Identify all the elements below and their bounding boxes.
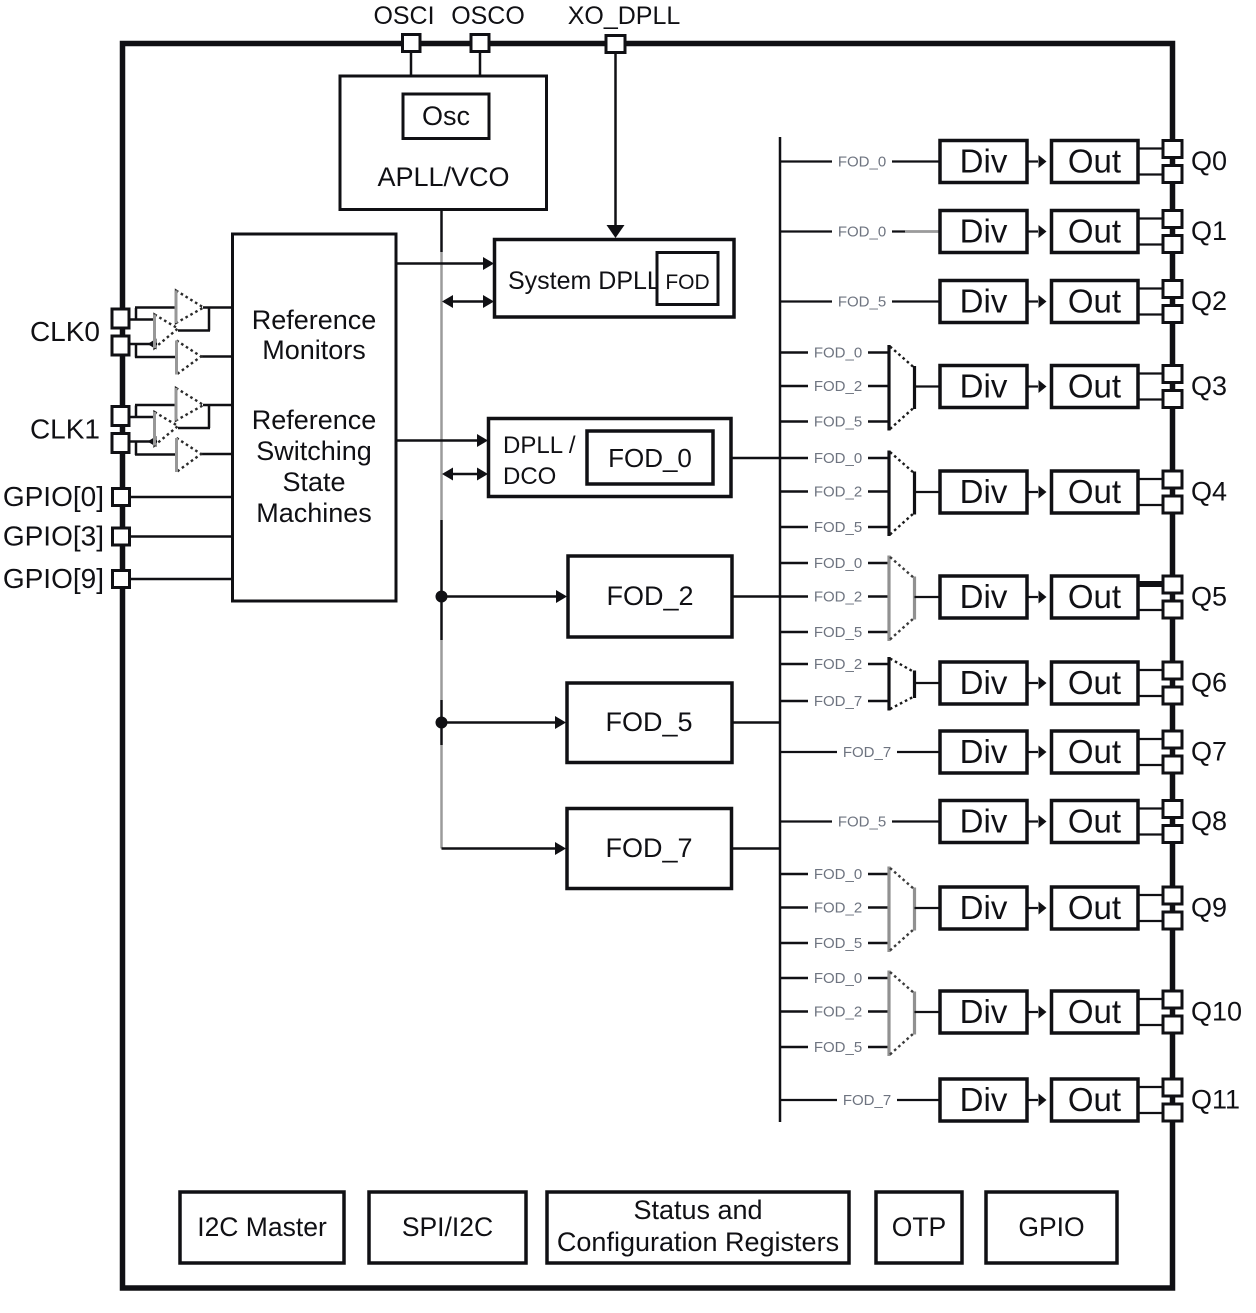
input buffers CLK0 [129, 291, 233, 375]
wire Out to pins Q1 [1138, 217, 1164, 219]
svg-text:Div: Div [960, 143, 1008, 180]
block FOD_7 [567, 809, 732, 889]
divider Div Q11 [940, 1079, 1027, 1121]
svg-text:DCO: DCO [503, 463, 556, 490]
pin squares Q3 [1163, 366, 1182, 383]
wire Out to pins Q9 [1138, 894, 1164, 896]
output driver Out Q0 [1052, 141, 1139, 183]
svg-text:GPIO[9]: GPIO[9] [3, 563, 104, 594]
svg-text:Configuration Registers: Configuration Registers [557, 1227, 839, 1257]
wire to FOD_7 [442, 847, 558, 850]
arrow Div to Out [1027, 385, 1038, 387]
svg-text:Out: Out [1068, 283, 1121, 320]
pin GPIO[3] square [113, 528, 130, 545]
divider Div Q7 [940, 731, 1027, 773]
svg-text:CLK1: CLK1 [30, 414, 100, 445]
wire DPLL/DCO bidirectional [444, 473, 478, 476]
mux Q6 [887, 657, 890, 711]
svg-text:APLL/VCO: APLL/VCO [377, 162, 509, 192]
svg-text:Div: Div [960, 283, 1008, 320]
svg-text:FOD_0: FOD_0 [838, 154, 886, 171]
svg-text:Q5: Q5 [1191, 582, 1227, 612]
pin squares Q4 [1163, 471, 1182, 488]
svg-text:Q8: Q8 [1191, 806, 1227, 836]
svg-text:Div: Div [960, 473, 1008, 510]
svg-text:FOD_2: FOD_2 [606, 581, 693, 611]
svg-text:FOD_5: FOD_5 [838, 294, 886, 311]
svg-text:Q0: Q0 [1191, 146, 1227, 176]
svg-text:XO_DPLL: XO_DPLL [568, 2, 681, 30]
pin GPIO[9] square [113, 571, 130, 588]
svg-text:Osc: Osc [422, 101, 470, 131]
svg-text:FOD_0: FOD_0 [814, 866, 862, 883]
wire APLL output down (gray seg) [440, 640, 443, 700]
svg-text:Div: Div [960, 803, 1008, 840]
svg-text:FOD_5: FOD_5 [814, 519, 862, 536]
wire Out to pins Q10 [1138, 998, 1164, 1000]
svg-text:FOD_2: FOD_2 [814, 656, 862, 673]
block Osc [403, 94, 489, 139]
svg-text:I2C Master: I2C Master [197, 1212, 327, 1242]
pin squares Q6 [1163, 662, 1182, 679]
svg-text:Div: Div [960, 664, 1008, 701]
svg-text:Monitors: Monitors [262, 335, 366, 365]
output channel Q9 [780, 865, 1227, 952]
svg-text:State: State [282, 467, 345, 497]
svg-text:Div: Div [960, 368, 1008, 405]
mux Q3 [887, 345, 890, 431]
wire APLL output down (black seg FOD_5) [440, 700, 443, 745]
svg-text:GPIO[0]: GPIO[0] [3, 481, 104, 512]
divider Div Q0 [940, 141, 1027, 183]
wire Out to pins Q5 [1138, 581, 1164, 587]
svg-text:Out: Out [1068, 733, 1121, 770]
svg-text:FOD_5: FOD_5 [814, 414, 862, 431]
divider Div Q10 [940, 991, 1027, 1033]
pin squares Q5 [1163, 576, 1182, 593]
svg-text:Q2: Q2 [1191, 286, 1227, 316]
svg-text:FOD_0: FOD_0 [814, 345, 862, 362]
svg-text:FOD_0: FOD_0 [838, 224, 886, 241]
divider Div Q8 [940, 801, 1027, 843]
output channel Q7 [780, 731, 1227, 773]
wire GPIO[3] [129, 535, 233, 538]
svg-text:FOD_5: FOD_5 [814, 624, 862, 641]
pin squares Q9 [1163, 887, 1182, 904]
svg-text:GPIO: GPIO [1018, 1212, 1084, 1242]
svg-text:Out: Out [1068, 889, 1121, 926]
output driver Out Q3 [1052, 366, 1139, 408]
output channel Q11 [780, 1079, 1240, 1121]
svg-text:FOD_0: FOD_0 [608, 443, 692, 473]
svg-text:GPIO[3]: GPIO[3] [3, 521, 104, 552]
output channel Q5 [732, 554, 1227, 641]
svg-text:Div: Div [960, 578, 1008, 615]
wire Out to pins Q2 [1138, 287, 1164, 289]
svg-text:Out: Out [1068, 368, 1121, 405]
pin squares Q2 [1163, 281, 1182, 298]
svg-text:FOD: FOD [665, 271, 709, 294]
svg-text:OSCO: OSCO [451, 2, 525, 30]
svg-text:Div: Div [960, 213, 1008, 250]
node junction FOD_2 feed [436, 591, 448, 603]
svg-text:System DPLL: System DPLL [508, 267, 661, 295]
arrow Div to Out [1027, 491, 1038, 493]
wire APLL output down (gray bottom) [440, 745, 443, 849]
svg-text:FOD_7: FOD_7 [843, 1092, 891, 1109]
svg-text:Q3: Q3 [1191, 371, 1227, 401]
svg-text:FOD_5: FOD_5 [814, 935, 862, 952]
output channel Q6 [780, 655, 1227, 711]
svg-text:Out: Out [1068, 664, 1121, 701]
output driver Out Q1 [1052, 211, 1139, 253]
svg-text:FOD_5: FOD_5 [838, 814, 886, 831]
arrow Div to Out [1027, 820, 1038, 822]
wire FOD_7 output to bus [732, 847, 781, 850]
svg-text:Div: Div [960, 733, 1008, 770]
wire to FOD_2 [442, 595, 559, 598]
svg-text:Out: Out [1068, 213, 1121, 250]
output channel Q10 [780, 969, 1242, 1056]
divider Div Q9 [940, 887, 1027, 929]
mux Q9 [887, 867, 890, 953]
svg-text:Out: Out [1068, 578, 1121, 615]
output driver Out Q7 [1052, 731, 1139, 773]
mux Q4 [887, 451, 890, 537]
svg-text:Switching: Switching [256, 436, 372, 466]
wire Reference to System DPLL [396, 262, 484, 265]
block FOD_5 [567, 683, 732, 763]
svg-text:FOD_7: FOD_7 [843, 744, 891, 761]
pin squares Q7 [1163, 731, 1182, 748]
wire Out to pins Q4 [1138, 478, 1164, 480]
block Status and Configuration Registers [547, 1192, 849, 1263]
divider Div Q6 [940, 662, 1027, 704]
node junction FOD_5 feed [436, 717, 448, 729]
arrow Div to Out [1027, 907, 1038, 909]
svg-text:FOD_0: FOD_0 [814, 450, 862, 467]
block Reference Monitors / Switching State Machines [233, 234, 397, 601]
arrow Div to Out [1027, 682, 1038, 684]
arrow Div to Out [1027, 230, 1038, 232]
output driver Out Q10 [1052, 991, 1139, 1033]
svg-text:FOD_2: FOD_2 [814, 589, 862, 606]
svg-text:Out: Out [1068, 473, 1121, 510]
output channel Q2 [780, 281, 1227, 323]
svg-text:OSCI: OSCI [373, 2, 434, 30]
svg-text:Out: Out [1068, 993, 1121, 1030]
output driver Out Q11 [1052, 1079, 1139, 1121]
output channel Q1 [780, 211, 1227, 253]
svg-text:SPI/I2C: SPI/I2C [402, 1212, 493, 1242]
block System DPLL [495, 240, 735, 318]
block FOD_0 (inside DPLL/DCO) [587, 431, 713, 484]
svg-text:FOD_5: FOD_5 [605, 707, 692, 737]
output channel Q3 [780, 344, 1227, 431]
wire GPIO[9] [129, 578, 233, 581]
wire APLL output down (black top) [440, 209, 443, 252]
pin XO_DPLL square [606, 36, 625, 53]
svg-text:CLK0: CLK0 [30, 316, 100, 347]
svg-text:FOD_2: FOD_2 [814, 900, 862, 917]
arrow Div to Out [1027, 1099, 1038, 1101]
pin squares Q11 [1163, 1079, 1182, 1096]
mux Q5 [887, 556, 890, 642]
arrow Div to Out [1027, 160, 1038, 162]
svg-text:Div: Div [960, 889, 1008, 926]
pin squares Q1 [1163, 211, 1182, 228]
pin CLK0 squares [112, 309, 129, 328]
wire Out to pins Q11 [1138, 1086, 1164, 1088]
svg-text:Div: Div [960, 1081, 1008, 1118]
svg-text:FOD_7: FOD_7 [814, 693, 862, 710]
block FOD (inside System DPLL) [657, 253, 718, 305]
wire APLL output down (gray mid) [440, 252, 443, 520]
block DPLL/DCO [489, 419, 732, 497]
svg-text:Out: Out [1068, 143, 1121, 180]
divider Div Q2 [940, 281, 1027, 323]
svg-text:DPLL /: DPLL / [503, 432, 576, 459]
svg-text:Q1: Q1 [1191, 216, 1227, 246]
pin GPIO[0] square [113, 489, 130, 506]
svg-text:Div: Div [960, 993, 1008, 1030]
wire GPIO[0] [129, 496, 233, 499]
block GPIO [986, 1192, 1117, 1263]
pin CLK1 squares [112, 407, 129, 426]
pin squares Q0 [1163, 141, 1182, 158]
svg-text:FOD_0: FOD_0 [814, 970, 862, 987]
divider Div Q1 [940, 211, 1027, 253]
wire Reference to DPLL/DCO [396, 439, 478, 442]
wire Out to pins Q8 [1138, 807, 1164, 809]
output channel Q8 [780, 801, 1227, 843]
wire Out to pins Q7 [1138, 738, 1164, 740]
svg-text:Out: Out [1068, 1081, 1121, 1118]
svg-text:Q9: Q9 [1191, 893, 1227, 923]
pin squares Q8 [1163, 801, 1182, 818]
wire to FOD_5 [442, 721, 558, 724]
svg-text:FOD_2: FOD_2 [814, 1004, 862, 1021]
chip outline border [123, 44, 1173, 1289]
wire XO_DPLL to System DPLL [614, 52, 617, 227]
divider Div Q3 [940, 366, 1027, 408]
block APLL/VCO [340, 76, 547, 210]
svg-text:FOD_2: FOD_2 [814, 484, 862, 501]
arrow Div to Out [1027, 1011, 1038, 1013]
input buffers CLK1 [129, 388, 233, 472]
arrow Div to Out [1027, 751, 1038, 753]
svg-text:FOD_0: FOD_0 [814, 555, 862, 572]
block OTP [876, 1192, 962, 1263]
output driver Out Q5 [1052, 576, 1139, 618]
wire OSCO stub [479, 50, 482, 77]
svg-text:FOD_2: FOD_2 [814, 378, 862, 395]
svg-text:Q10: Q10 [1191, 997, 1242, 1027]
divider Div Q5 [940, 576, 1027, 618]
wire System DPLL bidirectional [444, 300, 484, 303]
svg-text:Reference: Reference [252, 405, 377, 435]
output channel Q4 [731, 449, 1227, 536]
block I2C Master [180, 1192, 344, 1263]
svg-text:Machines: Machines [256, 498, 372, 528]
mux Q10 [887, 971, 890, 1057]
svg-text:Out: Out [1068, 803, 1121, 840]
output channel Q0 [780, 141, 1227, 183]
svg-text:Q11: Q11 [1191, 1085, 1240, 1115]
svg-text:FOD_5: FOD_5 [814, 1039, 862, 1056]
pin OSCI square [403, 35, 421, 52]
output driver Out Q4 [1052, 471, 1139, 513]
svg-text:Q7: Q7 [1191, 737, 1227, 767]
output driver Out Q6 [1052, 662, 1139, 704]
svg-text:Status and: Status and [633, 1195, 762, 1225]
arrow Div to Out [1027, 596, 1038, 598]
output driver Out Q9 [1052, 887, 1139, 929]
wire Out to pins Q3 [1138, 372, 1164, 374]
block FOD_2 [568, 556, 732, 637]
output driver Out Q8 [1052, 801, 1139, 843]
svg-text:OTP: OTP [892, 1212, 946, 1242]
arrow Div to Out [1027, 300, 1038, 302]
output driver Out Q2 [1052, 281, 1139, 323]
bus vertical line [779, 137, 782, 1122]
wire APLL output down (black seg FOD_2) [440, 520, 443, 640]
svg-text:Q4: Q4 [1191, 477, 1227, 507]
wire Out to pins Q0 [1138, 147, 1164, 149]
svg-text:Reference: Reference [252, 305, 377, 335]
divider Div Q4 [940, 471, 1027, 513]
block SPI/I2C [369, 1192, 526, 1263]
wire FOD_5 output to bus [732, 721, 780, 724]
svg-text:FOD_7: FOD_7 [605, 833, 692, 863]
wire OSCI stub [410, 50, 413, 77]
svg-text:Q6: Q6 [1191, 668, 1227, 698]
pin squares Q10 [1163, 991, 1182, 1008]
wire Out to pins Q6 [1138, 669, 1164, 671]
pin OSCO square [471, 35, 489, 52]
